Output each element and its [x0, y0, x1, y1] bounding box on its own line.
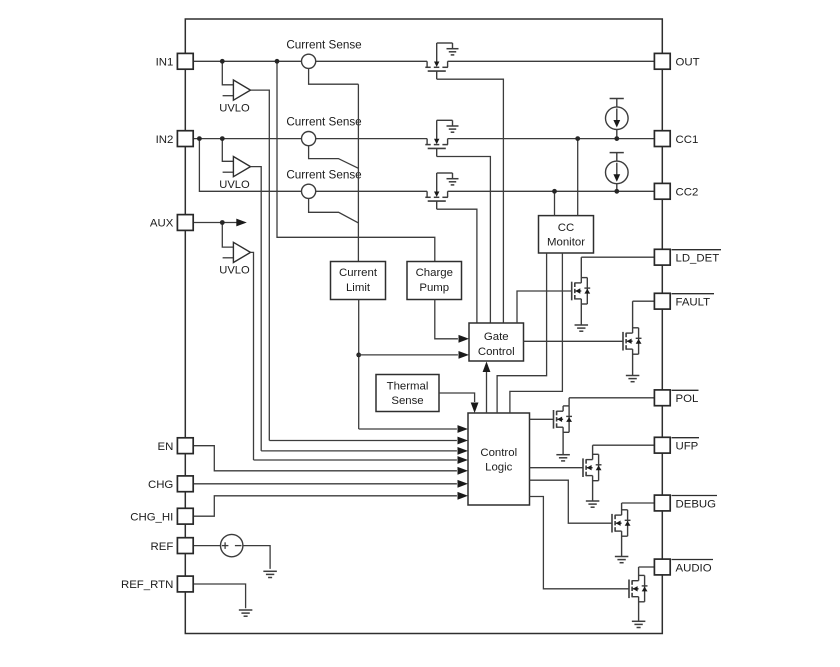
- wire EN to Control Logic: [193, 446, 457, 471]
- transistor POL FET: [554, 398, 655, 455]
- svg-text:FAULT: FAULT: [676, 297, 711, 309]
- wire IN1 branch to Charge Pump: [277, 61, 435, 261]
- wire M2 gate to Gate Control: [437, 157, 491, 324]
- svg-text:Current Sense: Current Sense: [286, 169, 361, 182]
- current sense CS2 circle: [302, 132, 316, 146]
- arrowhead into Gate Control (current limit): [459, 351, 470, 359]
- pin CC1: [654, 131, 670, 147]
- wire M1 gate to Gate Control: [437, 79, 504, 323]
- node junction IN1-UVLO1: [220, 59, 225, 64]
- arrowhead into Control Logic (UVLO2): [458, 447, 469, 455]
- transistor FAULT FET: [623, 301, 654, 375]
- svg-text:UFP: UFP: [676, 441, 699, 453]
- wire CHG_HI to Control Logic: [193, 496, 457, 516]
- pin POL: [654, 390, 670, 406]
- wire Gate Control to FAULT gate: [524, 340, 624, 342]
- node junction CC1-CCmon: [575, 136, 580, 141]
- pin CHG: [177, 476, 193, 492]
- svg-text:CC1: CC1: [676, 134, 699, 146]
- current sense CS1 circle: [302, 54, 316, 68]
- wire CC2 line to CC Monitor: [554, 191, 556, 215]
- arrowhead into Control Logic (thermal): [471, 403, 479, 414]
- pin DEBUG: [654, 495, 670, 511]
- node junction IN2-UVLO2: [220, 136, 225, 141]
- wire Gate Control to LD_DET gate: [517, 291, 572, 323]
- transistor UFP FET: [583, 445, 654, 501]
- block Thermal Sense: [376, 375, 439, 412]
- wire UVLO3 to Control Logic: [254, 459, 457, 461]
- arrowhead into Control Logic (UVLO1): [458, 437, 469, 445]
- wire UVLO2 to Control Logic: [261, 450, 457, 452]
- overline LD_DET: [672, 249, 722, 251]
- svg-text:CC2: CC2: [676, 187, 699, 199]
- pin IN1: [177, 53, 193, 69]
- arrowhead into Gate Control bottom: [483, 362, 491, 373]
- block Current Limit: [331, 262, 386, 300]
- wire CC Monitor out A to Control Logic: [497, 253, 546, 413]
- wire M2 drain to CC1: [448, 138, 655, 140]
- wire Control Logic to POL gate: [530, 418, 554, 420]
- svg-text:IN1: IN1: [156, 57, 174, 69]
- wire UVLO1 output: [251, 90, 270, 440]
- current sense CS3 circle: [302, 184, 316, 198]
- wire Control Logic to UFP gate: [530, 467, 584, 469]
- svg-text:UVLO: UVLO: [219, 179, 250, 191]
- svg-text:UVLO: UVLO: [219, 102, 250, 114]
- wire UVLO3 ref stub: [223, 257, 234, 259]
- arrowhead into Gate Control (charge pump): [459, 335, 470, 343]
- overline UFP: [672, 437, 700, 439]
- svg-text:CC: CC: [558, 222, 574, 234]
- wire IN2 drop to CS3 row: [199, 139, 427, 192]
- wire IN2 row (IN2 to M2 source): [193, 138, 427, 140]
- svg-text:AUDIO: AUDIO: [676, 562, 712, 574]
- node junction IN2-CS3: [197, 136, 202, 141]
- svg-text:REF: REF: [151, 541, 174, 553]
- ground LD_DET source: [575, 325, 589, 331]
- op-amp UVLO2 triangle: [233, 157, 250, 177]
- pin UFP: [654, 437, 670, 453]
- pin FAULT: [654, 293, 670, 309]
- wire M1 drain to OUT: [448, 60, 655, 62]
- pin AUX: [177, 215, 193, 231]
- transistor M1 pass FET: [425, 43, 452, 79]
- wire CS1 tap: [309, 68, 359, 84]
- ground M2 body: [447, 120, 459, 132]
- transistor M2 pass FET: [425, 120, 452, 156]
- svg-text:REF_RTN: REF_RTN: [121, 579, 173, 591]
- wire IN1 row (IN1 to M1 source): [193, 60, 427, 62]
- pin REF: [177, 538, 193, 554]
- svg-text:Gate: Gate: [484, 331, 509, 343]
- block Control Logic: [468, 413, 530, 505]
- wire UVLO1 to Control Logic: [269, 440, 457, 442]
- svg-text:Thermal: Thermal: [387, 380, 429, 392]
- arrowhead into Control Logic (UVLO3): [458, 456, 469, 464]
- overline FAULT: [672, 293, 715, 295]
- svg-text:CHG: CHG: [148, 479, 173, 491]
- wire current-sense bus into Current Limit: [357, 84, 359, 261]
- wire CS2 tap with diagonal: [309, 146, 359, 169]
- svg-text:Pump: Pump: [419, 282, 449, 294]
- ground REF_RTN: [239, 610, 253, 616]
- arrowhead into Control Logic (EN): [458, 467, 469, 475]
- pin CC2: [654, 183, 670, 199]
- wire M3 drain to CC2: [448, 190, 655, 192]
- ground POL source: [556, 455, 570, 461]
- arrowhead into Control Logic (CHG): [458, 480, 469, 488]
- ground UFP source: [586, 501, 600, 507]
- svg-text:Limit: Limit: [346, 282, 371, 294]
- wire M3 gate to Gate Control: [437, 209, 477, 323]
- block Charge Pump: [407, 262, 462, 300]
- svg-text:LD_DET: LD_DET: [676, 253, 720, 265]
- wire UVLO1 ref stub: [223, 95, 234, 97]
- wire REF source to ground: [243, 546, 270, 569]
- transistor M3 pass FET: [425, 173, 452, 209]
- node junction AUX-UVLO3: [220, 220, 225, 225]
- transistor LD_DET FET: [572, 257, 655, 325]
- ground M3 body: [447, 173, 459, 185]
- svg-text:Logic: Logic: [485, 462, 513, 474]
- wire REF to source: [193, 545, 220, 547]
- overline POL: [672, 389, 699, 391]
- svg-text:Monitor: Monitor: [547, 237, 585, 249]
- wire UVLO3 output: [251, 252, 254, 460]
- IC boundary: [185, 19, 662, 634]
- wire CC1 line to CC Monitor: [577, 139, 579, 216]
- svg-text:OUT: OUT: [676, 57, 700, 69]
- node junction CC2-CCmon: [552, 189, 557, 194]
- node junction I1 on line: [614, 136, 619, 141]
- svg-text:Current: Current: [339, 267, 378, 279]
- transistor AUDIO FET: [629, 567, 654, 621]
- ground DEBUG source: [615, 557, 629, 563]
- node junction I2 on line: [614, 189, 619, 194]
- svg-text:EN: EN: [157, 441, 173, 453]
- wire Thermal Sense to Control Logic: [439, 393, 475, 402]
- ground FAULT source: [626, 376, 640, 382]
- svg-text:Sense: Sense: [391, 395, 423, 407]
- block Gate Control: [469, 323, 524, 361]
- svg-text:IN2: IN2: [156, 134, 174, 146]
- node junction Current Limit output: [356, 353, 361, 358]
- wire Control Logic to AUDIO gate: [530, 497, 630, 589]
- pin CHG_HI: [177, 508, 193, 524]
- pin REF_RTN: [177, 576, 193, 592]
- wire UVLO1 input: [222, 61, 233, 85]
- wire UVLO2 ref stub: [223, 171, 234, 173]
- ground AUDIO source: [632, 621, 646, 627]
- wire UVLO3 input: [222, 223, 233, 248]
- voltage source REF: [221, 534, 243, 556]
- svg-text:Current Sense: Current Sense: [286, 39, 361, 52]
- wire CC Monitor out B to Control Logic: [510, 253, 563, 413]
- svg-text:AUX: AUX: [150, 218, 174, 230]
- svg-text:UVLO: UVLO: [219, 265, 250, 277]
- wire CHG to Control Logic: [193, 483, 457, 485]
- wire Control Logic to Gate Control shaft: [486, 368, 488, 413]
- pin OUT: [654, 53, 670, 69]
- pin EN: [177, 438, 193, 454]
- overline AUDIO: [672, 559, 714, 561]
- ground M1 body: [447, 43, 459, 55]
- svg-text:DEBUG: DEBUG: [676, 498, 717, 510]
- svg-text:POL: POL: [676, 393, 699, 405]
- overline DEBUG: [672, 495, 718, 497]
- wire REF_RTN to ground: [193, 584, 245, 608]
- block CC Monitor: [539, 216, 594, 253]
- svg-text:CHG_HI: CHG_HI: [130, 511, 173, 523]
- wire Current Limit to Gate Control: [359, 354, 458, 356]
- pin LD_DET: [654, 249, 670, 265]
- current source I1: [606, 99, 629, 139]
- wire Charge Pump to Gate Control: [435, 300, 458, 339]
- ground REF: [263, 571, 277, 577]
- wire UVLO2 output: [251, 167, 262, 451]
- pin AUDIO: [654, 559, 670, 575]
- svg-text:Current Sense: Current Sense: [286, 116, 361, 129]
- pin IN2: [177, 131, 193, 147]
- arrowhead AUX: [236, 219, 247, 227]
- op-amp UVLO1 triangle: [233, 80, 250, 100]
- svg-text:Control: Control: [480, 447, 517, 459]
- wire Current Limit to Control Logic: [359, 428, 457, 430]
- wire Control Logic to DEBUG gate: [530, 480, 613, 523]
- current source I2: [606, 153, 629, 192]
- op-amp UVLO3 triangle: [233, 242, 250, 262]
- svg-text:Control: Control: [478, 346, 515, 358]
- wire UVLO2 input: [222, 139, 233, 162]
- arrowhead into Control Logic (CHG_HI): [458, 492, 469, 500]
- wire AUX with arrow: [193, 222, 237, 224]
- arrowhead into Control Logic (current limit): [458, 425, 469, 433]
- wire Current Limit output vertical: [358, 300, 360, 430]
- svg-text:Charge: Charge: [416, 267, 453, 279]
- transistor DEBUG FET: [612, 503, 654, 557]
- wire CS3 tap with diagonal: [309, 198, 359, 223]
- node junction IN1-branch: [275, 59, 280, 64]
